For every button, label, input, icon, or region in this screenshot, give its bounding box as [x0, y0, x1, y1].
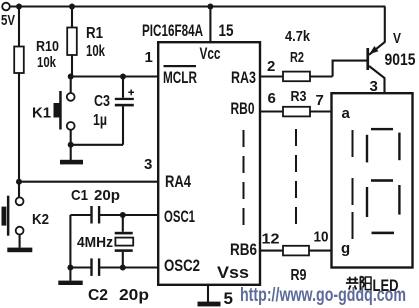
node K1-bottom: [68, 142, 74, 148]
svg-text:K2: K2: [32, 211, 49, 228]
svg-text:RB0: RB0: [231, 99, 255, 118]
svg-text:2: 2: [267, 58, 275, 75]
ground under K1: [60, 145, 83, 165]
op-amp U1 PIC16F84A chip body: [142, 21, 260, 285]
seven-segment digit upper-left segment: [366, 135, 368, 163]
svg-text:4.7k: 4.7k: [285, 28, 311, 45]
svg-text:4MHz: 4MHz: [77, 234, 113, 251]
svg-text:5V: 5V: [1, 12, 15, 29]
label common-anode LED (Chinese): [346, 276, 371, 290]
svg-text:PIC16F84A: PIC16F84A: [142, 21, 203, 40]
wire RB0 to R3: [260, 110, 283, 112]
svg-text:C1: C1: [71, 187, 88, 204]
crystal X1 4MHz: [77, 215, 133, 268]
resistor R2: [283, 28, 311, 81]
seven-segment digit middle segment: [371, 179, 393, 182]
svg-text:10k: 10k: [37, 54, 56, 71]
node top-R10: [16, 4, 22, 10]
wire Vcc pin 15: [209, 7, 211, 43]
svg-text:RB6: RB6: [230, 240, 257, 259]
svg-text:OSC1: OSC1: [164, 207, 195, 226]
wire top rail: [10, 5, 386, 7]
svg-text:R9: R9: [291, 267, 307, 284]
svg-text:C2: C2: [88, 287, 108, 304]
wire osc left branch: [69, 215, 71, 268]
svg-text:MCLR: MCLR: [163, 68, 197, 87]
node C2-left: [67, 265, 73, 271]
wire RA3 to R2: [260, 75, 283, 77]
node top-Vcc: [207, 4, 213, 10]
svg-text:R10: R10: [36, 38, 59, 55]
ground under oscillator: [58, 268, 82, 286]
seven-segment digit top segment: [371, 128, 393, 130]
svg-text:RA4: RA4: [165, 172, 191, 191]
dashed pins inside chip: [243, 130, 245, 226]
svg-text:15: 15: [219, 21, 234, 40]
svg-text:g: g: [341, 240, 350, 257]
capacitor C1: [70, 187, 158, 224]
svg-text:a: a: [342, 105, 351, 122]
wire RB6 to R9: [260, 250, 283, 252]
5V terminal: [1, 3, 15, 29]
resistor R9: [283, 246, 309, 284]
seven-segment digit lower-right segment: [398, 185, 400, 215]
resistor R10: [14, 7, 59, 182]
capacitor C2: [70, 258, 158, 304]
svg-text:12: 12: [262, 231, 280, 248]
node OSC1-crystal: [120, 212, 126, 218]
svg-text:RA3: RA3: [231, 68, 256, 87]
node C3-top: [120, 74, 126, 80]
LED display module: [332, 93, 413, 267]
svg-text:V: V: [393, 30, 401, 47]
resistor R1: [67, 7, 105, 77]
svg-text:http://www.go-gddq.com: http://www.go-gddq.com: [240, 285, 406, 306]
svg-text:20p: 20p: [94, 187, 120, 204]
svg-text:Vss: Vss: [217, 263, 249, 282]
svg-text:10: 10: [314, 229, 329, 246]
node top-R1: [69, 4, 75, 10]
seven-segment digit upper-right segment: [398, 133, 400, 161]
svg-text:7: 7: [316, 92, 324, 109]
dashed wires between R3 and R9: [295, 129, 297, 227]
dashed segment pins inside display: [352, 130, 354, 239]
svg-text:10k: 10k: [86, 43, 105, 60]
switch K1: [32, 77, 75, 145]
svg-text:1: 1: [145, 49, 153, 66]
wire Vss pin 5: [207, 285, 209, 302]
svg-text:C3: C3: [94, 93, 110, 110]
svg-text:R3: R3: [291, 88, 307, 105]
capacitor C3: [93, 77, 134, 145]
node R1-K1: [68, 74, 74, 80]
svg-text:5: 5: [224, 289, 233, 308]
svg-text:20p: 20p: [119, 287, 149, 304]
svg-text:K1: K1: [32, 105, 51, 122]
svg-text:6: 6: [268, 90, 276, 107]
wire R3 to display pin a: [310, 110, 332, 112]
wire RA4 net: [19, 181, 158, 183]
svg-text:1µ: 1µ: [93, 112, 107, 129]
transistor V 9015: [366, 7, 415, 96]
seven-segment digit bottom segment: [372, 232, 395, 235]
svg-text:R1: R1: [86, 25, 103, 42]
node OSC2-crystal: [120, 265, 126, 271]
svg-text:9015: 9015: [385, 50, 416, 69]
seven-segment digit lower-left segment: [366, 187, 368, 217]
wire R9 to display pin g: [309, 250, 332, 252]
switch K2: [2, 182, 50, 248]
node K2-RA4: [16, 179, 22, 185]
ground under K2: [7, 248, 32, 253]
pin name MCLR: [163, 65, 197, 87]
svg-text:R2: R2: [290, 49, 304, 66]
wire MCLR net: [71, 75, 159, 77]
svg-text:Vcc: Vcc: [200, 44, 221, 63]
svg-text:OSC2: OSC2: [164, 256, 200, 275]
svg-text:3: 3: [144, 156, 152, 173]
wire K1-C3 bottom: [71, 144, 123, 146]
resistor R3: [283, 88, 310, 116]
wire R2 to base: [310, 61, 368, 77]
ground under pin 5: [198, 302, 221, 307]
